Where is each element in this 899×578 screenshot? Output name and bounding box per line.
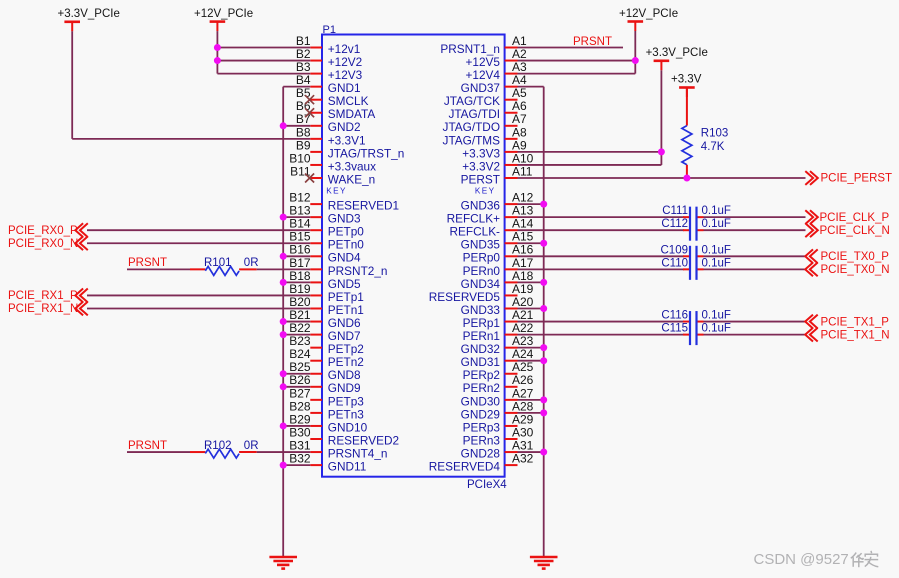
svg-text:GND31: GND31 [461, 355, 500, 369]
wire +3.3V_PCIe down to B8 row [71, 31, 73, 139]
junction A31 [540, 449, 547, 456]
wire A28 GND29 to bus [518, 412, 544, 414]
svg-text:C115: C115 [661, 323, 688, 335]
svg-text:+12V5: +12V5 [466, 55, 501, 69]
svg-text:GND37: GND37 [461, 81, 500, 95]
pin B6 (SMDATA) [296, 99, 375, 121]
svg-text:GND8: GND8 [328, 368, 361, 382]
svg-text:GND34: GND34 [461, 277, 501, 291]
pin B16 (GND4) [289, 243, 361, 265]
svg-text:GND29: GND29 [461, 407, 500, 421]
svg-text:PERp3: PERp3 [463, 420, 501, 434]
pin A17 (PERn0) [463, 256, 534, 278]
svg-text:CSDN @9527: CSDN @9527 [754, 551, 849, 568]
wire +12V_PCIe left vertical to B3 [216, 31, 218, 74]
pin B11 (WAKE_n) [290, 164, 375, 186]
svg-text:C109: C109 [661, 244, 689, 256]
pin B26 (GND9) [289, 373, 360, 395]
svg-text:RESERVED5: RESERVED5 [429, 290, 501, 304]
svg-text:PRSNT: PRSNT [573, 36, 612, 48]
wire A18 GND34 to bus [518, 281, 544, 283]
resistor R102 0R [204, 440, 259, 458]
wire A14 REFCLK- to C112 [518, 229, 685, 231]
svg-text:B31: B31 [289, 438, 311, 452]
junction B25 [280, 370, 287, 377]
svg-text:B10: B10 [289, 151, 311, 165]
junction B18 [280, 279, 287, 286]
pin B20 (PETn1) [289, 295, 364, 317]
pin A20 (GND33) [461, 295, 534, 317]
pin B5 (SMCLK) [296, 86, 369, 108]
wire R101 to B17 [239, 268, 310, 270]
svg-text:+3.3V1: +3.3V1 [328, 133, 366, 147]
svg-text:GND30: GND30 [461, 394, 501, 408]
ground (left bus) [269, 557, 297, 569]
wire B22 GND7 to bus [283, 334, 310, 336]
svg-text:R102: R102 [204, 440, 232, 452]
power symbol +12V_PCIe (top left) [194, 8, 253, 31]
svg-text:GND33: GND33 [461, 303, 501, 317]
svg-text:PCIeX4: PCIeX4 [467, 479, 507, 491]
svg-text:PCIE_TX1_P: PCIE_TX1_P [821, 316, 890, 328]
pin A12 (GND36) [461, 191, 534, 213]
wire A1 PRSNT1_n [518, 47, 624, 49]
wire B1 +12v1 [217, 47, 310, 49]
pin A29 (PERp3) [463, 412, 534, 434]
wire PRSNT to R101 [127, 268, 205, 270]
svg-text:C116: C116 [661, 310, 688, 322]
svg-text:PRSNT4_n: PRSNT4_n [328, 446, 388, 460]
pin B13 (GND3) [289, 204, 361, 226]
net label PRSNT (left, R101) [128, 257, 167, 269]
svg-text:0.1uF: 0.1uF [702, 218, 731, 230]
svg-text:+12V3: +12V3 [328, 68, 363, 82]
off-page connector PCIE_PERST [805, 171, 892, 185]
svg-text:PETn0: PETn0 [328, 238, 365, 252]
svg-text:PRSNT2_n: PRSNT2_n [328, 264, 388, 278]
svg-text:PETp3: PETp3 [328, 394, 365, 408]
pin B15 (PETn0) [289, 230, 364, 252]
svg-text:A6: A6 [512, 99, 527, 113]
svg-text:C111: C111 [662, 205, 688, 217]
svg-text:B23: B23 [289, 334, 311, 348]
off-page connector PCIE_RX0_P [8, 223, 88, 237]
wire +3.3V to R103 [686, 88, 688, 126]
svg-text:PRSNT: PRSNT [128, 440, 167, 452]
no-connect X on pin B6 [305, 108, 314, 117]
junction A18 [540, 279, 547, 286]
svg-text:R103: R103 [701, 128, 729, 140]
wire A3 +12V4 [518, 73, 636, 75]
svg-text:A28: A28 [512, 399, 534, 413]
junction A27 [540, 396, 547, 403]
svg-text:PERST: PERST [461, 172, 500, 186]
pin A10 (+3.3V2) [462, 151, 533, 173]
wire PCIE_RX0_N to B15 [87, 242, 310, 244]
svg-text:B1: B1 [296, 34, 311, 48]
svg-text:A1: A1 [512, 34, 527, 48]
svg-text:PETp2: PETp2 [328, 342, 364, 356]
svg-text:PERn3: PERn3 [463, 433, 501, 447]
pin B3 (+12V3) [296, 60, 363, 82]
svg-text:GND5: GND5 [328, 277, 361, 291]
svg-text:RESERVED1: RESERVED1 [328, 199, 399, 213]
svg-text:GND10: GND10 [328, 420, 368, 434]
wire right GND bus vertical [543, 87, 545, 557]
svg-text:A24: A24 [512, 347, 534, 361]
svg-text:A7: A7 [512, 112, 527, 126]
svg-text:GND6: GND6 [328, 316, 361, 330]
svg-text:+3.3V3: +3.3V3 [462, 146, 500, 160]
svg-text:B30: B30 [289, 425, 311, 439]
wire A20 GND33 to bus [518, 308, 544, 310]
wire B29 GND10 to bus [283, 425, 310, 427]
resistor R101 0R [204, 257, 259, 275]
svg-text:PERn0: PERn0 [463, 264, 501, 278]
junction A15 [540, 240, 547, 247]
pin A3 (+12V4) [466, 60, 527, 82]
wire A27 GND30 to bus [518, 399, 544, 401]
junction B21 [280, 318, 287, 325]
pin A24 (GND31) [461, 347, 534, 369]
junction A9 [658, 148, 665, 155]
pin A4 (GND37) [461, 73, 527, 95]
svg-text:PETp0: PETp0 [328, 225, 365, 239]
svg-text:A14: A14 [512, 217, 534, 231]
svg-text:A11: A11 [512, 164, 533, 178]
pin A6 (JTAG/TDI) [448, 99, 527, 121]
svg-text:A16: A16 [512, 243, 534, 257]
junction A23 [540, 344, 547, 351]
svg-text:GND7: GND7 [328, 329, 361, 343]
svg-text:PETn2: PETn2 [328, 355, 364, 369]
wire PCIE_RX1_N to B20 [87, 308, 310, 310]
svg-text:+12v1: +12v1 [328, 42, 360, 56]
junction B26 [280, 383, 287, 390]
pin A22 (PERn1) [463, 321, 534, 343]
svg-text:SMDATA: SMDATA [328, 107, 376, 121]
svg-text:0.1uF: 0.1uF [702, 323, 731, 335]
svg-text:+3.3vaux: +3.3vaux [328, 159, 376, 173]
pin A7 (JTAG/TDO) [443, 112, 527, 134]
svg-text:PERp2: PERp2 [463, 368, 500, 382]
pin B31 (PRSNT4_n) [289, 438, 387, 460]
wire A11 PERST [518, 177, 806, 179]
net label PRSNT (left, R102) [128, 440, 167, 452]
power symbol +3.3V_PCIe (right) [646, 47, 708, 70]
junction A2 [632, 57, 639, 64]
svg-text:A23: A23 [512, 334, 534, 348]
wire C111 to PCIE_CLK_P [704, 216, 806, 218]
wire A16 PERp0 to C109 [518, 255, 685, 257]
svg-text:GND36: GND36 [461, 199, 501, 213]
svg-text:B19: B19 [289, 282, 311, 296]
svg-text:PETn3: PETn3 [328, 407, 365, 421]
pin B28 (PETn3) [289, 399, 364, 421]
svg-text:PCIE_CLK_N: PCIE_CLK_N [820, 225, 890, 237]
wire C110 to PCIE_TX0_N [704, 268, 806, 270]
wire R102 to B31 [239, 451, 310, 453]
pin A16 (PERp0) [463, 243, 534, 265]
junction A12 [540, 201, 547, 208]
svg-text:B21: B21 [289, 308, 311, 322]
wire A23 GND32 to bus [518, 347, 544, 349]
pin B21 (GND6) [289, 308, 361, 330]
pin B18 (GND5) [289, 269, 361, 291]
power symbol +3.3V_PCIe (top left) [58, 8, 120, 31]
pin A31 (GND28) [461, 438, 534, 460]
pin B9 (JTAG/TRST_n) [296, 138, 404, 160]
pin A30 (PERn3) [463, 425, 534, 447]
capacitors C111 C112 0.1uF [661, 205, 731, 241]
junction B2 [214, 57, 221, 64]
svg-text:C112: C112 [661, 218, 688, 230]
svg-text:RESERVED4: RESERVED4 [429, 460, 501, 474]
svg-text:GND28: GND28 [461, 446, 501, 460]
junction B22 [280, 331, 287, 338]
wire A31 GND28 to bus [518, 451, 544, 453]
pin B25 (GND8) [289, 360, 361, 382]
off-page connector PCIE_RX0_N [8, 236, 88, 250]
pin B14 (PETp0) [289, 217, 364, 239]
svg-text:+3.3V_PCIe: +3.3V_PCIe [646, 47, 708, 59]
pin B4 (GND1) [296, 73, 361, 95]
power symbol +3.3V [671, 74, 702, 97]
wire B2 +12V2 [217, 60, 310, 62]
pin A11 (PERST) [461, 164, 533, 186]
svg-text:0R: 0R [244, 257, 259, 269]
wire A22 PERn1 to C115 [518, 334, 685, 336]
no-connect X on pin B11 [305, 174, 314, 183]
svg-text:WAKE_n: WAKE_n [328, 172, 375, 186]
wire C109 to PCIE_TX0_P [704, 255, 806, 257]
svg-text:A8: A8 [512, 125, 527, 139]
junction B1 [214, 44, 221, 51]
off-page connector PCIE_TX0_P [805, 249, 889, 263]
pin A25 (PERp2) [463, 360, 534, 382]
pin A32 (RESERVED4) [429, 452, 534, 474]
wire B3 +12V3 [217, 73, 310, 75]
wire A13 REFCLK+ to C111 [518, 216, 685, 218]
svg-text:A32: A32 [512, 452, 534, 466]
svg-text:0.1uF: 0.1uF [702, 205, 731, 217]
svg-text:+3.3V: +3.3V [671, 74, 702, 86]
svg-text:B9: B9 [296, 138, 311, 152]
junction A20 [540, 305, 547, 312]
pin B10 (+3.3vaux) [289, 151, 376, 173]
svg-text:B22: B22 [289, 321, 311, 335]
svg-text:+12V2: +12V2 [328, 55, 362, 69]
pin B8 (+3.3V1) [296, 125, 366, 147]
capacitors C109 C110 0.1uF [661, 244, 731, 280]
svg-text:A2: A2 [512, 47, 527, 61]
pin A8 (JTAG/TMS) [443, 125, 527, 147]
wire PCIE_RX1_P to B19 [87, 294, 310, 296]
svg-text:PCIE_PERST: PCIE_PERST [821, 173, 893, 185]
off-page connector PCIE_TX0_N [805, 262, 889, 276]
wire A17 PERn0 to C110 [518, 268, 685, 270]
wire PCIE_RX0_P to B14 [87, 229, 310, 231]
svg-text:B14: B14 [289, 217, 311, 231]
svg-text:PERn2: PERn2 [463, 381, 500, 395]
wire B25 GND8 to bus [283, 373, 310, 375]
svg-text:B3: B3 [296, 60, 311, 74]
off-page connector PCIE_RX1_N [8, 302, 88, 316]
pin B32 (GND11) [289, 452, 366, 474]
svg-text:RESERVED2: RESERVED2 [328, 433, 399, 447]
svg-text:+3.3V2: +3.3V2 [462, 159, 500, 173]
svg-text:JTAG/TCK: JTAG/TCK [444, 94, 500, 108]
pin B7 (GND2) [296, 112, 361, 134]
junction B16 [280, 253, 287, 260]
svg-text:B8: B8 [296, 125, 311, 139]
svg-text:PCIE_RX0_N: PCIE_RX0_N [8, 238, 78, 250]
pin B24 (PETn2) [289, 347, 364, 369]
wire B4 GND1 [283, 86, 310, 88]
wire B13 GND3 to bus [283, 216, 310, 218]
svg-text:GND35: GND35 [461, 238, 501, 252]
connector P1 body [322, 24, 507, 491]
pin B2 (+12V2) [296, 47, 362, 69]
pin B12 (RESERVED1) [289, 191, 399, 213]
pin B17 (PRSNT2_n) [289, 256, 387, 278]
wire PRSNT to R102 [127, 451, 205, 453]
wire B16 GND4 to bus [283, 255, 310, 257]
pin A5 (JTAG/TCK) [444, 86, 527, 108]
svg-text:GND11: GND11 [328, 460, 366, 474]
pin B27 (PETp3) [289, 386, 364, 408]
svg-text:PETn1: PETn1 [328, 303, 364, 317]
svg-text:A17: A17 [512, 256, 534, 270]
wire B21 GND6 to bus [283, 321, 310, 323]
wire B8 +3.3V1 [72, 138, 310, 140]
svg-text:B32: B32 [289, 452, 311, 466]
svg-text:PRSNT1_n: PRSNT1_n [440, 42, 500, 56]
svg-text:A15: A15 [512, 230, 534, 244]
svg-text:A18: A18 [512, 269, 534, 283]
off-page connector PCIE_CLK_P [805, 210, 889, 224]
pin B19 (PETp1) [289, 282, 364, 304]
junction B13 [280, 214, 287, 221]
svg-text:0.1uF: 0.1uF [702, 310, 731, 322]
junction B29 [280, 422, 287, 429]
svg-text:PETp1: PETp1 [328, 290, 364, 304]
svg-text:PCIE_RX1_N: PCIE_RX1_N [8, 303, 78, 315]
pin B29 (GND10) [289, 412, 367, 434]
svg-text:B25: B25 [289, 360, 311, 374]
pin B22 (GND7) [289, 321, 360, 343]
svg-text:B27: B27 [289, 386, 311, 400]
svg-text:B2: B2 [296, 47, 311, 61]
svg-text:REFCLK+: REFCLK+ [447, 212, 501, 226]
wire B32 GND11 to bus [283, 464, 310, 466]
svg-text:A21: A21 [512, 308, 534, 322]
junction B7 [280, 122, 287, 129]
resistor R103 4.7K [682, 126, 728, 165]
wire R103 to PERST net [686, 165, 688, 178]
wire B7 GND2 to bus [283, 125, 310, 127]
wire A9 +3.3V3 [518, 151, 662, 153]
svg-text:GND9: GND9 [328, 381, 361, 395]
wire A21 PERp1 to C116 [518, 321, 685, 323]
svg-text:A9: A9 [512, 138, 527, 152]
off-page connector PCIE_CLK_N [805, 223, 890, 237]
svg-text:GND3: GND3 [328, 212, 361, 226]
junction A24 [540, 357, 547, 364]
svg-text:A30: A30 [512, 425, 534, 439]
pin A26 (PERn2) [463, 373, 534, 395]
pin A19 (RESERVED5) [429, 282, 534, 304]
wire left GND bus vertical [282, 87, 284, 557]
svg-text:JTAG/TRST_n: JTAG/TRST_n [328, 146, 404, 160]
svg-text:+3.3V_PCIe: +3.3V_PCIe [58, 8, 120, 20]
ground (right bus) [530, 557, 558, 569]
svg-text:B24: B24 [289, 347, 311, 361]
svg-text:+12V_PCIe: +12V_PCIe [619, 8, 678, 20]
svg-text:JTAG/TDO: JTAG/TDO [443, 120, 500, 134]
pin B23 (PETp2) [289, 334, 364, 356]
svg-text:B26: B26 [289, 373, 311, 387]
pin A9 (+3.3V3) [462, 138, 527, 160]
svg-text:A19: A19 [512, 282, 534, 296]
svg-text:A29: A29 [512, 412, 534, 426]
svg-text:A13: A13 [512, 204, 534, 218]
wire B18 GND5 to bus [283, 281, 310, 283]
svg-text:+12V_PCIe: +12V_PCIe [194, 8, 253, 20]
wire A12 GND36 to bus [518, 203, 544, 205]
svg-text:A27: A27 [512, 386, 534, 400]
svg-text:B17: B17 [289, 256, 311, 270]
off-page connector PCIE_TX1_N [805, 328, 889, 342]
wire A2 +12V5 [518, 60, 636, 62]
pin A2 (+12V5) [466, 47, 527, 69]
pin A23 (GND32) [461, 334, 534, 356]
svg-text:B16: B16 [289, 243, 311, 257]
svg-text:A10: A10 [512, 151, 534, 165]
svg-text:PERn1: PERn1 [463, 329, 500, 343]
svg-text:B29: B29 [289, 412, 311, 426]
svg-text:0.1uF: 0.1uF [702, 244, 731, 256]
wire +12V_PCIe right vertical to A3 [634, 31, 636, 74]
svg-text:B12: B12 [289, 191, 311, 205]
no-connect X on pin B5 [305, 95, 314, 104]
wire B26 GND9 to bus [283, 386, 310, 388]
svg-text:A3: A3 [512, 60, 527, 74]
svg-text:PCIE_CLK_P: PCIE_CLK_P [820, 212, 890, 224]
svg-text:REFCLK-: REFCLK- [450, 225, 501, 239]
wire C115 to PCIE_TX1_N [704, 334, 806, 336]
pin A28 (GND29) [461, 399, 534, 421]
net label PRSNT (A1) [573, 36, 612, 48]
svg-text:PCIE_TX0_P: PCIE_TX0_P [821, 251, 890, 263]
watermark CSDN @9527 (hua an) [754, 551, 879, 568]
wire +3.3V_PCIe down to A10 [660, 70, 662, 165]
svg-text:+12V4: +12V4 [466, 68, 501, 82]
pin A21 (PERp1) [463, 308, 534, 330]
svg-text:PCIE_TX1_N: PCIE_TX1_N [821, 329, 890, 341]
junction PERST/R103 [683, 175, 690, 182]
svg-text:B28: B28 [289, 399, 311, 413]
svg-text:GND32: GND32 [461, 342, 500, 356]
svg-text:A22: A22 [512, 321, 534, 335]
svg-text:PERp0: PERp0 [463, 251, 501, 265]
svg-text:GND2: GND2 [328, 120, 361, 134]
svg-text:GND1: GND1 [328, 81, 361, 95]
capacitors C116 C115 0.1uF [661, 310, 731, 346]
svg-text:PCIE_RX0_P: PCIE_RX0_P [8, 225, 78, 237]
pin A18 (GND34) [461, 269, 534, 291]
power symbol +12V_PCIe (top right) [619, 8, 678, 31]
